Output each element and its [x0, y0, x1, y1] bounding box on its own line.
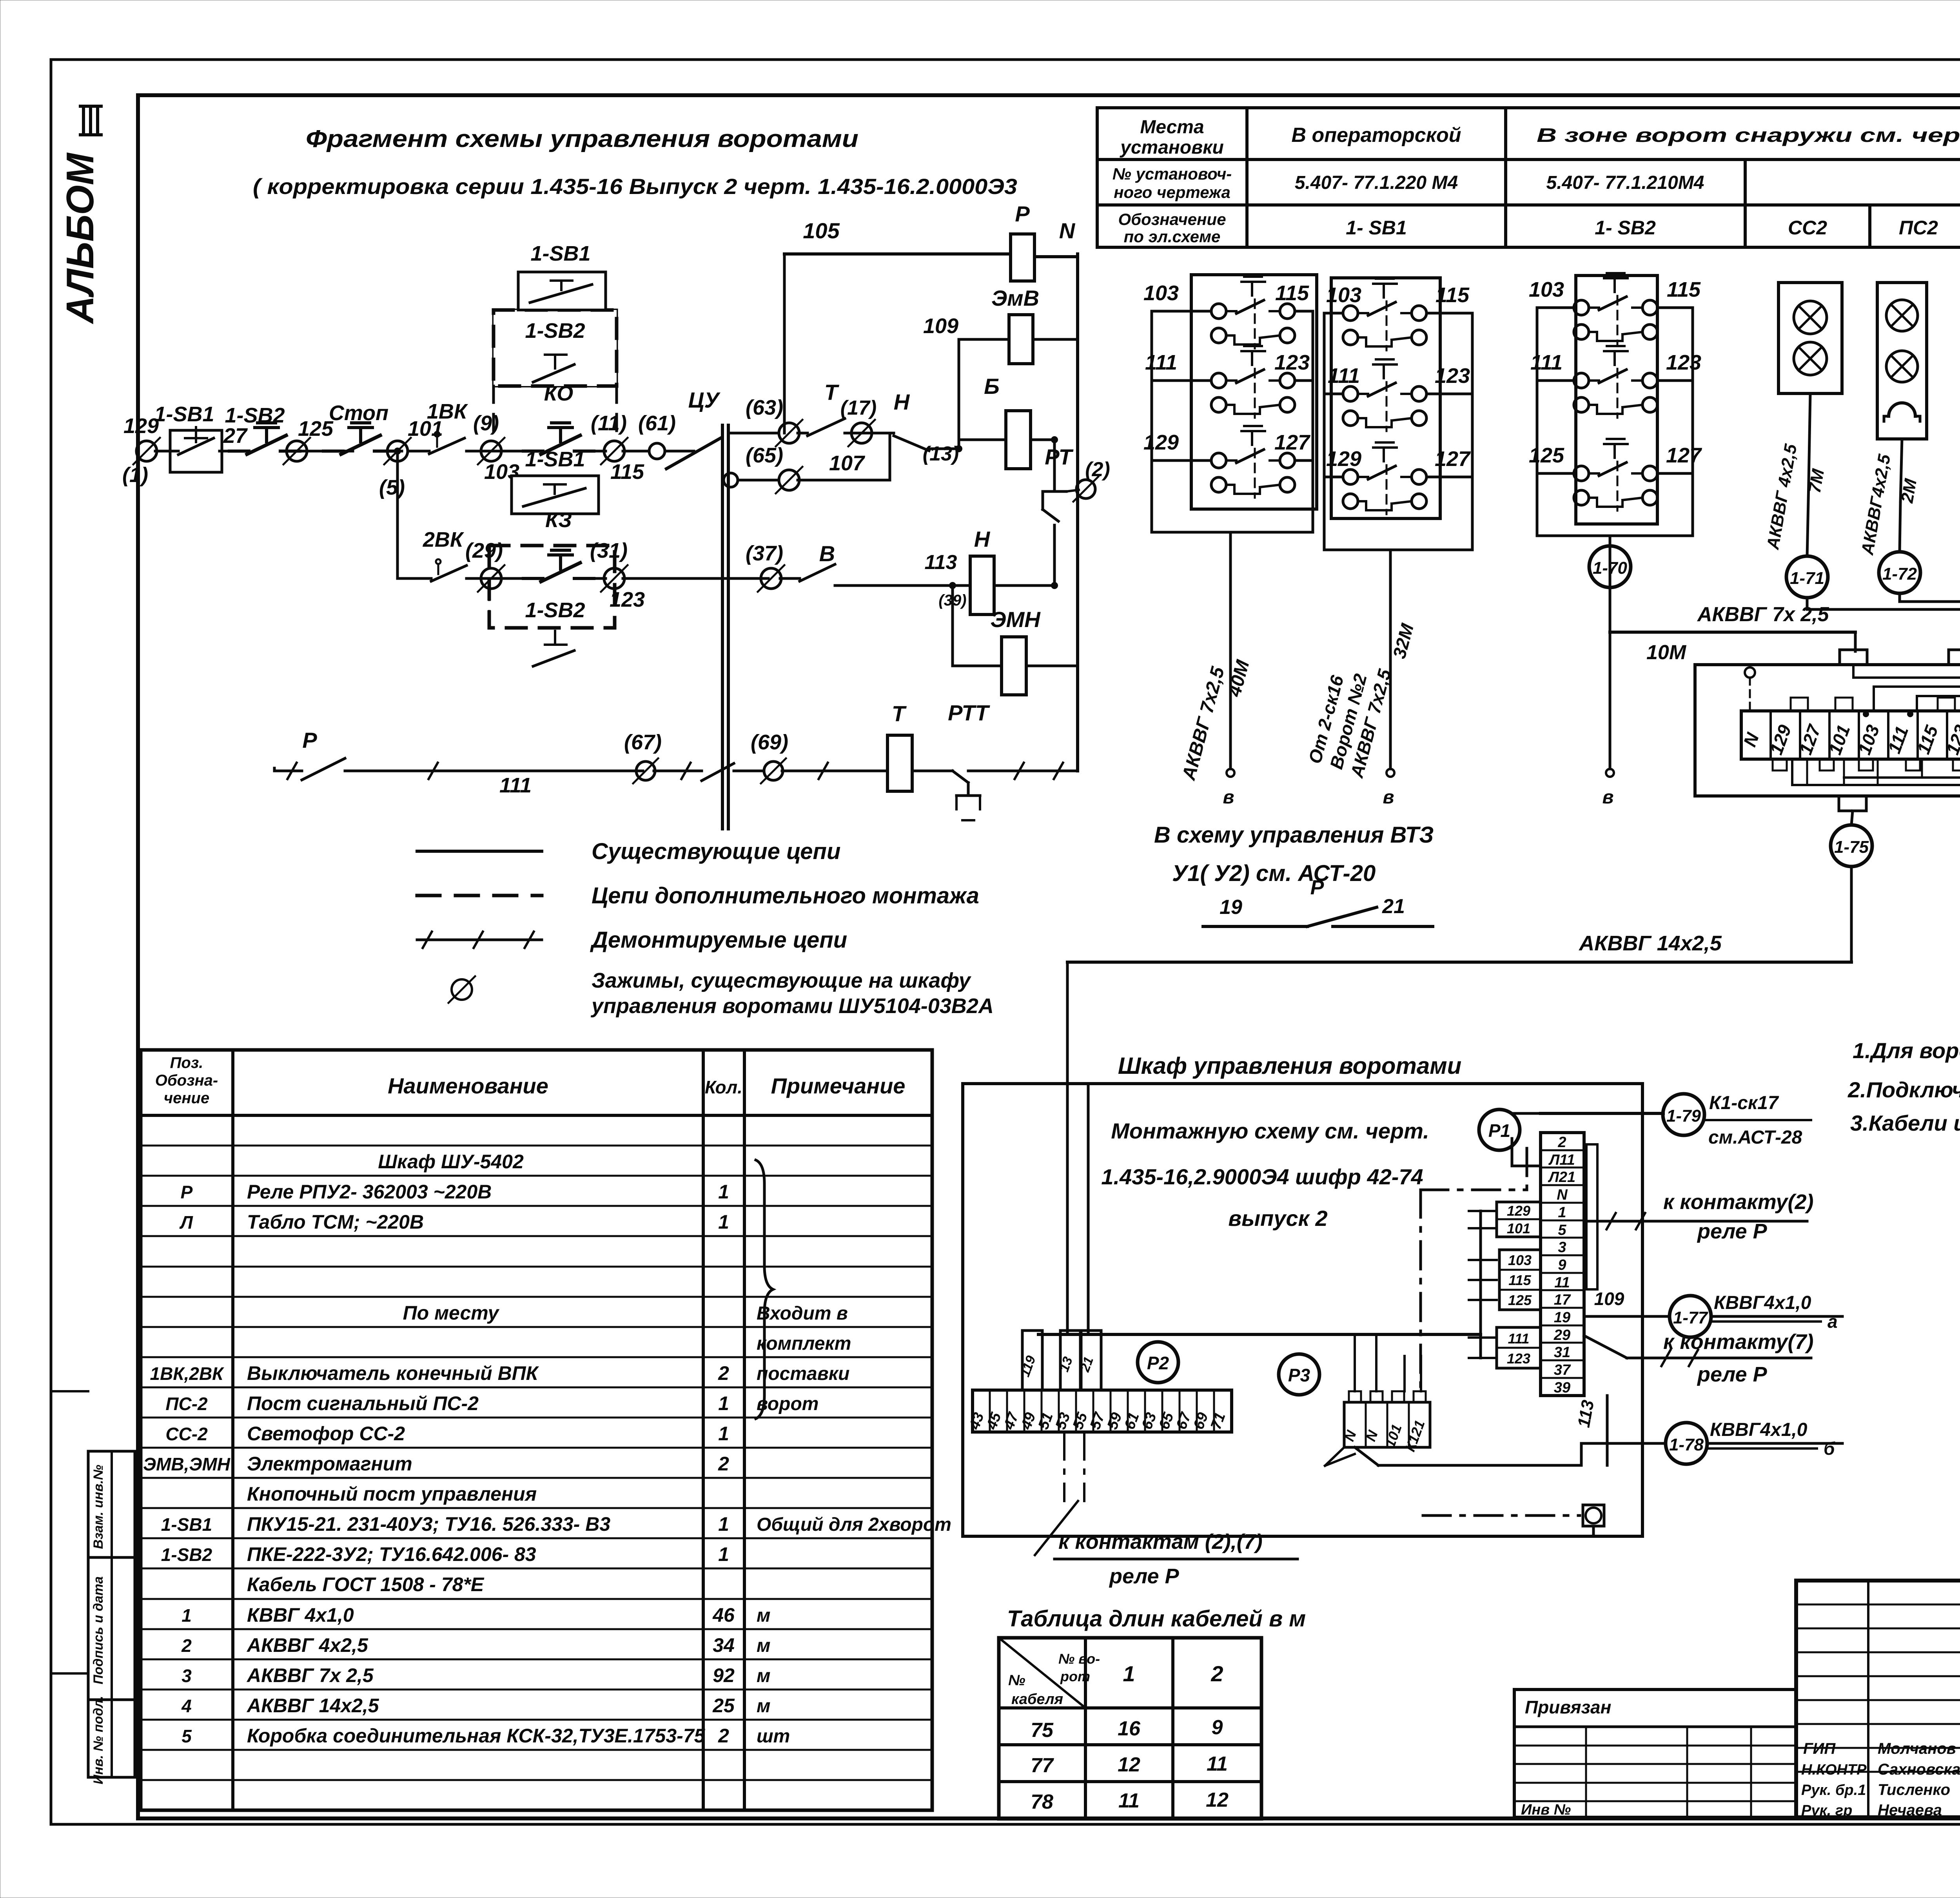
top installation table	[1097, 106, 1960, 109]
wire k kontaktu (2)	[1584, 1220, 1807, 1223]
cable AKVVG 7x2.5 10M wire	[1609, 587, 1612, 632]
coil T bottom	[887, 735, 912, 791]
svg-text:127: 127	[1435, 447, 1471, 471]
svg-text:1: 1	[1123, 1661, 1135, 1686]
terminal (11)/115	[604, 441, 624, 461]
terminal cells 119 13 21	[1022, 1331, 1042, 1390]
svg-text:м: м	[757, 1605, 771, 1626]
svg-text:Подпись и дата: Подпись и дата	[91, 1576, 106, 1684]
svg-text:В: В	[819, 541, 835, 566]
svg-text:123: 123	[1507, 1351, 1530, 1367]
legend dismantled circuits	[417, 939, 542, 941]
svg-text:Зажимы, существующие на шкафу: Зажимы, существующие на шкафу	[592, 969, 972, 992]
svg-text:123: 123	[1274, 351, 1310, 374]
svg-text:По месту: По месту	[403, 1302, 500, 1324]
wires from lamps to terminal box	[1806, 598, 1809, 609]
svg-text:м: м	[757, 1666, 771, 1686]
svg-text:Привязан: Привязан	[1525, 1697, 1611, 1717]
svg-text:78: 78	[1031, 1791, 1053, 1813]
svg-text:129: 129	[123, 414, 159, 438]
svg-text:Молчанов: Молчанов	[1878, 1740, 1956, 1757]
svg-text:1-78: 1-78	[1669, 1435, 1704, 1454]
bottom demontage wire	[274, 770, 302, 772]
svg-text:115: 115	[1667, 278, 1701, 301]
svg-text:1-SB2: 1-SB2	[525, 319, 585, 343]
svg-text:Т: Т	[824, 380, 840, 404]
svg-text:21: 21	[1382, 895, 1405, 918]
svg-text:(69): (69)	[751, 731, 788, 754]
svg-text:2: 2	[1557, 1134, 1566, 1151]
svg-text:92: 92	[713, 1664, 735, 1686]
svg-text:3: 3	[181, 1666, 192, 1686]
svg-text:реле Р: реле Р	[1697, 1363, 1768, 1386]
svg-text:ПС-2: ПС-2	[165, 1394, 208, 1414]
svg-text:В зоне ворот снаружи см. че: В зоне ворот снаружи см. черт.1.435-16. …	[1537, 124, 1960, 146]
knife switch TsU	[666, 438, 720, 469]
svg-text:105: 105	[803, 218, 840, 243]
thermal contact RT	[1053, 440, 1056, 491]
terminal box bottom tabs	[1839, 796, 1866, 811]
svg-text:1-75: 1-75	[1834, 838, 1869, 857]
svg-text:1.Для ворот №2 схема анало: 1.Для ворот №2 схема аналогична данной .	[1853, 1038, 1960, 1063]
marker circle 1-70	[1609, 536, 1612, 546]
svg-text:АКВВГ 7х 2,5: АКВВГ 7х 2,5	[246, 1664, 374, 1686]
svg-text:5.407- 77.1.220 М4: 5.407- 77.1.220 М4	[1295, 172, 1458, 193]
svg-text:111: 111	[499, 774, 532, 797]
svg-text:№: №	[1008, 1672, 1025, 1689]
wire AKVVG 14x2.5 to cabinet	[1850, 867, 1853, 962]
terminal strip of R1	[1541, 1133, 1584, 1396]
contact KZ	[523, 577, 543, 580]
svg-text:поставки: поставки	[757, 1363, 849, 1384]
wire k kontaktu (7)	[1584, 1336, 1627, 1358]
svg-text:Р: Р	[1310, 876, 1324, 899]
terminal strip connection dots	[1863, 711, 1869, 717]
svg-text:в: в	[1602, 787, 1614, 808]
solid box 1-SB1 upper	[518, 272, 606, 310]
small strip near R3	[1344, 1402, 1430, 1447]
svg-text:ПКЕ-222-3У2; ТУ16.642: ПКЕ-222-3У2; ТУ16.642.006- 83	[247, 1543, 536, 1565]
marker circle 1-72	[1879, 552, 1920, 593]
svg-text:У1( У2) см. АСТ-20: У1( У2) см. АСТ-20	[1172, 861, 1376, 886]
terminal strip cells	[1741, 711, 1960, 759]
svg-text:Н.КОНТР: Н.КОНТР	[1801, 1762, 1867, 1778]
svg-text:1ВК: 1ВК	[427, 400, 468, 423]
svg-text:3: 3	[1558, 1239, 1566, 1256]
svg-text:(37): (37)	[746, 542, 783, 565]
svg-text:Кол.: Кол.	[705, 1077, 742, 1097]
svg-text:Табло ТСМ; ~220В: Табло ТСМ; ~220В	[247, 1211, 424, 1233]
fold mark upper	[51, 1390, 88, 1392]
svg-text:1: 1	[718, 1211, 729, 1233]
svg-text:1-SB2: 1-SB2	[161, 1545, 212, 1565]
terminal box 1-SK16 outline	[1695, 665, 1960, 796]
push button block 2 (SB2 gate 2)	[1331, 278, 1440, 518]
svg-text:Наименование: Наименование	[388, 1073, 548, 1098]
svg-text:125: 125	[298, 417, 334, 441]
svg-text:ворот: ворот	[757, 1394, 818, 1414]
svg-text:к контакту(2): к контакту(2)	[1663, 1190, 1813, 1214]
svg-text:75: 75	[1031, 1719, 1054, 1742]
side column stamps	[88, 1451, 135, 1777]
svg-text:N: N	[1059, 218, 1076, 243]
svg-text:рот: рот	[1060, 1668, 1090, 1684]
svg-text:( корректировка серии 1.435-: ( корректировка серии 1.435-16 Выпуск 2 …	[253, 174, 1017, 199]
limit switch 2VK contact	[427, 577, 431, 580]
svg-text:109: 109	[923, 314, 958, 338]
svg-text:в: в	[1223, 787, 1234, 808]
svg-text:ПС2: ПС2	[1899, 217, 1938, 239]
traffic light SS2	[1779, 283, 1842, 393]
svg-text:Инв. № подл.: Инв. № подл.	[91, 1696, 106, 1784]
svg-text:Обозначение: Обозначение	[1118, 210, 1226, 228]
push button block 3	[1576, 276, 1657, 524]
svg-text:Р2: Р2	[1147, 1353, 1169, 1373]
svg-text:5: 5	[1558, 1222, 1566, 1238]
svg-text:б: б	[1824, 1438, 1835, 1459]
svg-text:Монтажную схему см. черт.: Монтажную схему см. черт.	[1111, 1118, 1429, 1143]
svg-text:2: 2	[718, 1453, 729, 1475]
svg-text:Входит в: Входит в	[757, 1303, 848, 1324]
svg-text:Тисленко: Тисленко	[1878, 1781, 1950, 1798]
svg-text:В схему управления ВТЗ: В схему управления ВТЗ	[1154, 822, 1434, 848]
svg-text:Р: Р	[1015, 201, 1030, 226]
top line 105 and relay coil P	[783, 254, 786, 433]
svg-text:Коробка соединительная КСК-32: Коробка соединительная КСК-32,ТУ3Е.1753-…	[247, 1725, 706, 1747]
svg-text:111: 111	[1328, 364, 1360, 388]
svg-text:Взам. инв.№: Взам. инв.№	[91, 1465, 106, 1549]
svg-text:АКВВГ 4х2,5: АКВВГ 4х2,5	[246, 1634, 368, 1656]
svg-text:17: 17	[1554, 1292, 1571, 1308]
svg-text:ГИП: ГИП	[1803, 1740, 1836, 1757]
svg-text:39: 39	[1554, 1380, 1570, 1396]
terminal box lower wiring	[1806, 759, 1808, 785]
cabinet box	[963, 1084, 1642, 1536]
svg-text:125: 125	[1508, 1292, 1532, 1308]
svg-text:129: 129	[1507, 1203, 1530, 1219]
terminal (9)/103	[481, 441, 501, 461]
cables into cabinet	[1066, 962, 1069, 1334]
coil EMN	[1002, 637, 1026, 695]
svg-text:2: 2	[1210, 1661, 1223, 1686]
svg-text:Выключатель конечный ВПК: Выключатель конечный ВПК	[247, 1362, 539, 1384]
contact 1-SB2	[229, 450, 249, 453]
svg-text:РТТ: РТТ	[948, 700, 990, 725]
svg-text:Поз.: Поз.	[170, 1054, 203, 1071]
svg-text:Нечаева: Нечаева	[1878, 1802, 1942, 1819]
svg-text:кабеля: кабеля	[1011, 1691, 1063, 1708]
svg-text:Общий для 2хворот: Общий для 2хворот	[757, 1514, 951, 1535]
svg-text:комплект: комплект	[757, 1333, 851, 1354]
svg-text:№ во-: № во-	[1058, 1651, 1100, 1667]
svg-text:1- SB1: 1- SB1	[1346, 217, 1407, 239]
svg-text:м: м	[757, 1635, 771, 1656]
svg-text:25: 25	[712, 1695, 735, 1717]
svg-text:Т: Т	[892, 701, 907, 726]
terminal circle (61)	[649, 443, 665, 459]
svg-text:(9): (9)	[473, 412, 499, 435]
svg-text:Л21: Л21	[1548, 1169, 1575, 1186]
svg-text:Инв №: Инв №	[1521, 1802, 1571, 1818]
svg-text:4: 4	[181, 1696, 192, 1716]
svg-text:111: 111	[1508, 1331, 1530, 1347]
relay circle R3	[1279, 1354, 1319, 1395]
svg-text:1-77: 1-77	[1673, 1308, 1709, 1327]
svg-text:Л11: Л11	[1548, 1152, 1575, 1168]
svg-text:N: N	[1557, 1187, 1568, 1203]
svg-text:27: 27	[223, 424, 248, 448]
svg-text:Р: Р	[181, 1182, 193, 1202]
horizontal bus in cabinet	[1038, 1333, 1481, 1336]
comb wiring to address boxes	[1479, 1211, 1482, 1358]
svg-text:2: 2	[718, 1725, 729, 1747]
svg-text:(31): (31)	[590, 539, 628, 562]
relay circle R2	[1138, 1342, 1178, 1383]
svg-text:ПКУ15-21. 231-40У3; ТУ16. 526: ПКУ15-21. 231-40У3; ТУ16. 526.333- В3	[247, 1513, 610, 1535]
svg-text:реле Р: реле Р	[1697, 1220, 1768, 1243]
svg-text:111: 111	[1530, 351, 1563, 374]
signal post PS2	[1877, 283, 1927, 439]
svg-text:Кнопочный пост управления: Кнопочный пост управления	[247, 1483, 537, 1505]
svg-text:Р: Р	[302, 728, 317, 752]
svg-text:реле Р: реле Р	[1109, 1564, 1180, 1588]
svg-text:ЦУ: ЦУ	[688, 388, 721, 412]
svg-text:46: 46	[712, 1604, 735, 1626]
wire N riser	[1076, 254, 1079, 771]
svg-text:2ВК: 2ВК	[423, 528, 465, 551]
svg-text:Места: Места	[1140, 117, 1204, 138]
contact Stop	[323, 450, 343, 453]
branch (65)	[724, 473, 738, 487]
svg-text:103: 103	[1508, 1252, 1532, 1268]
marker circle 1-78	[1666, 1423, 1707, 1464]
svg-text:103: 103	[1529, 278, 1564, 301]
svg-text:Шкаф управления воротами: Шкаф управления воротами	[1118, 1053, 1462, 1079]
svg-text:(1): (1)	[122, 463, 148, 487]
svg-text:Л: Л	[179, 1212, 193, 1233]
svg-text:выпуск 2: выпуск 2	[1228, 1206, 1327, 1231]
branch (63) with contact T	[728, 432, 778, 435]
svg-text:1-SB2: 1-SB2	[225, 404, 285, 427]
svg-text:чение: чение	[164, 1089, 209, 1107]
svg-text:31: 31	[1554, 1344, 1570, 1361]
svg-text:СС2: СС2	[1788, 217, 1827, 239]
component list table	[141, 1050, 932, 1810]
limit switch 1VK contact	[408, 450, 429, 453]
svg-text:Кабель ГОСТ 1508 - 78*Е: Кабель ГОСТ 1508 - 78*Е	[247, 1574, 485, 1595]
svg-text:к контакту(7): к контакту(7)	[1663, 1330, 1813, 1354]
svg-text:1: 1	[718, 1423, 729, 1445]
svg-text:1: 1	[718, 1392, 729, 1414]
svg-text:113: 113	[925, 551, 957, 574]
svg-text:м: м	[757, 1696, 771, 1717]
wire from R1 to strip	[1511, 1138, 1514, 1166]
svg-text:1: 1	[1558, 1204, 1566, 1221]
svg-text:(29): (29)	[465, 539, 503, 562]
svg-text:1-SB1: 1-SB1	[154, 402, 214, 426]
legend existing circuits	[417, 850, 542, 853]
push-button 1-SB1 boxed contact	[170, 430, 222, 472]
svg-text:Реле РПУ2- 362003 ~220В: Реле РПУ2- 362003 ~220В	[247, 1181, 492, 1203]
svg-text:в: в	[1383, 787, 1394, 808]
svg-text:СС-2: СС-2	[165, 1424, 208, 1444]
svg-text:Обозна-: Обозна-	[155, 1072, 218, 1089]
branch to node (29) lower row	[396, 451, 399, 578]
lower terminal strip 43-71	[973, 1390, 1232, 1432]
dash-dot drops to rele P contacts	[1063, 1432, 1065, 1501]
svg-text:16: 16	[1118, 1717, 1141, 1740]
svg-text:1-71: 1-71	[1790, 569, 1824, 588]
svg-text:1-SB1: 1-SB1	[161, 1514, 212, 1535]
svg-text:11: 11	[1554, 1274, 1570, 1291]
svg-text:2.Подключение аппаратуры, пос: 2.Подключение аппаратуры, поставляемой к…	[1847, 1077, 1960, 1102]
marker circle 1-75	[1851, 811, 1853, 825]
svg-text:(65): (65)	[746, 444, 783, 467]
svg-text:9: 9	[1558, 1257, 1566, 1273]
junction (5)	[387, 441, 408, 461]
svg-text:ного чертежа: ного чертежа	[1114, 183, 1230, 201]
terminal box inner wiring	[1852, 665, 1855, 678]
svg-text:Р1: Р1	[1488, 1120, 1510, 1141]
svg-text:5.407- 77.1.210М4: 5.407- 77.1.210М4	[1546, 172, 1704, 193]
svg-text:Рук. бр.1: Рук. бр.1	[1801, 1782, 1866, 1798]
svg-text:Пост сигнальный ПС-2: Пост сигнальный ПС-2	[247, 1392, 479, 1414]
svg-text:1ВК,2ВК: 1ВК,2ВК	[150, 1363, 225, 1384]
svg-text:101: 101	[1507, 1220, 1530, 1236]
svg-text:1-79: 1-79	[1666, 1106, 1701, 1126]
svg-text:1-SB1: 1-SB1	[530, 242, 590, 265]
svg-text:(61): (61)	[638, 412, 676, 435]
main control line wire	[155, 450, 161, 453]
marker circle 1-79	[1663, 1094, 1704, 1135]
dashed box 1-SB2 lower	[489, 546, 615, 628]
svg-text:установки: установки	[1120, 137, 1224, 158]
svg-text:КВВГ 4х1,0: КВВГ 4х1,0	[247, 1604, 354, 1626]
svg-text:АКВВГ 14х2,5: АКВВГ 14х2,5	[246, 1695, 379, 1717]
svg-text:(5): (5)	[379, 476, 405, 499]
svg-text:11: 11	[1207, 1753, 1228, 1775]
svg-text:КВВГ4х1,0: КВВГ4х1,0	[1710, 1419, 1808, 1440]
svg-text:ЭмВ: ЭмВ	[991, 286, 1039, 310]
svg-text:РТ: РТ	[1045, 444, 1074, 469]
svg-text:№ установоч-: № установоч-	[1112, 165, 1232, 183]
svg-text:Фрагмент схемы управления в: Фрагмент схемы управления воротами	[306, 125, 858, 152]
svg-text:3.Кабели и материалы учтены: 3.Кабели и материалы учтены для 2х ворот…	[1850, 1111, 1960, 1135]
svg-text:Электромагнит: Электромагнит	[247, 1453, 412, 1475]
svg-text:2: 2	[718, 1362, 729, 1384]
legend additional mounting	[417, 894, 542, 897]
grounding square symbol	[1583, 1505, 1604, 1526]
svg-text:Примечание: Примечание	[771, 1073, 906, 1098]
svg-text:к контактам (2),(7): к контактам (2),(7)	[1058, 1530, 1263, 1554]
svg-text:Демонтируемые цепи: Демонтируемые цепи	[590, 927, 847, 953]
svg-text:12: 12	[1118, 1753, 1140, 1776]
svg-text:125: 125	[1529, 444, 1564, 467]
svg-text:115: 115	[1436, 283, 1470, 307]
svg-text:19: 19	[1554, 1309, 1570, 1326]
svg-text:1: 1	[718, 1543, 729, 1565]
svg-text:(17): (17)	[840, 397, 877, 419]
svg-text:АКВВГ 14х2,5: АКВВГ 14х2,5	[1578, 932, 1722, 955]
svg-text:1- SB2: 1- SB2	[1595, 217, 1656, 239]
svg-text:9: 9	[1212, 1716, 1223, 1739]
svg-text:а: а	[1828, 1311, 1838, 1332]
svg-text:1: 1	[181, 1605, 192, 1626]
svg-text:Б: Б	[984, 374, 1000, 399]
svg-text:115: 115	[1508, 1272, 1531, 1288]
terminal box top tabs	[1840, 650, 1867, 665]
svg-text:К1-ск17: К1-ск17	[1709, 1093, 1779, 1113]
svg-text:103: 103	[1143, 281, 1179, 305]
terminal (1)	[136, 441, 157, 461]
relay coil N (39)	[970, 556, 994, 615]
wire PS2 to 1-72	[1900, 439, 1902, 502]
svg-text:127: 127	[1666, 444, 1702, 467]
svg-text:129: 129	[1143, 431, 1179, 454]
svg-text:Светофор СС-2: Светофор СС-2	[247, 1423, 405, 1445]
svg-text:ЭМВ,ЭМН: ЭМВ,ЭМН	[143, 1454, 230, 1474]
svg-text:Цепи дополнительного монтажа: Цепи дополнительного монтажа	[592, 883, 979, 908]
terminal (37) and contact V	[761, 568, 781, 589]
privyazan table	[1514, 1690, 1796, 1817]
svg-text:Сахновская: Сахновская	[1878, 1761, 1960, 1778]
svg-text:115: 115	[1275, 281, 1309, 305]
svg-text:107: 107	[829, 451, 866, 475]
svg-text:1-70: 1-70	[1593, 558, 1628, 578]
wire to 1-79	[1541, 1112, 1663, 1115]
terminal (31)/123	[604, 568, 624, 589]
legend terminal symbol	[452, 979, 472, 1000]
svg-text:111: 111	[1145, 351, 1177, 374]
svg-text:управления воротами ШУ5104-03: управления воротами ШУ5104-03В2А	[590, 994, 994, 1018]
svg-text:103: 103	[1326, 283, 1361, 307]
svg-text:109: 109	[1594, 1289, 1624, 1309]
svg-text:(67): (67)	[624, 731, 662, 754]
fold mark lower	[51, 1672, 88, 1675]
svg-text:Р3: Р3	[1288, 1365, 1310, 1385]
relay circle R1	[1479, 1109, 1520, 1150]
terminal (17) and contact N	[851, 423, 872, 443]
svg-text:(63): (63)	[746, 396, 783, 419]
cable length table	[999, 1638, 1261, 1819]
svg-text:Таблица длин кабелей в м: Таблица длин кабелей в м	[1007, 1606, 1306, 1632]
svg-text:34: 34	[713, 1634, 735, 1656]
svg-text:1-SB1: 1-SB1	[525, 448, 585, 471]
svg-text:127: 127	[1274, 431, 1311, 454]
svg-text:37: 37	[1554, 1362, 1571, 1378]
svg-text:1-SB2: 1-SB2	[525, 598, 585, 622]
svg-text:1: 1	[718, 1513, 729, 1535]
coil B	[959, 439, 1006, 441]
marker circle 1-77	[1670, 1296, 1711, 1337]
svg-text:ЭМН: ЭМН	[990, 607, 1041, 632]
svg-text:Н: Н	[974, 527, 991, 551]
svg-text:по эл.схеме: по эл.схеме	[1124, 227, 1221, 246]
dash-dot demarcation	[1419, 1190, 1422, 1395]
contact 19-P-21	[1203, 925, 1307, 928]
svg-text:2: 2	[181, 1635, 192, 1656]
arrow from small strip	[1325, 1447, 1344, 1466]
contact KO	[523, 450, 543, 453]
svg-text:КВВГ4х1,0: КВВГ4х1,0	[1714, 1293, 1811, 1313]
svg-text:1.435-16,2.9000Э4 шифр 42-74: 1.435-16,2.9000Э4 шифр 42-74	[1101, 1164, 1423, 1189]
svg-text:Н: Н	[894, 390, 910, 414]
push button block 1 (SB1 gate 1)	[1191, 275, 1317, 509]
svg-text:77: 77	[1031, 1754, 1054, 1777]
svg-text:10М: 10М	[1646, 641, 1687, 664]
svg-text:12: 12	[1206, 1789, 1229, 1811]
terminal 125	[287, 441, 307, 461]
